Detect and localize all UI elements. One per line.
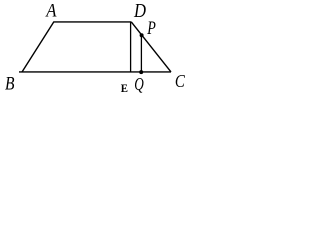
- side BC (bottom): [19, 71, 171, 73]
- side AD (top): [53, 21, 131, 23]
- svg-text:A: A: [44, 1, 56, 22]
- svg-text:E: E: [121, 83, 129, 95]
- svg-text:D: D: [133, 0, 146, 22]
- segment DE (altitude from D): [130, 22, 132, 72]
- segment PQ: [140, 35, 142, 72]
- point Q: [139, 70, 143, 74]
- svg-text:Q: Q: [134, 74, 144, 94]
- svg-text:B: B: [5, 74, 15, 95]
- side DC (right leg): [131, 22, 171, 72]
- point P: [140, 33, 144, 37]
- svg-text:C: C: [175, 71, 186, 91]
- side AB (left leg): [22, 22, 54, 72]
- svg-text:P: P: [146, 19, 155, 39]
